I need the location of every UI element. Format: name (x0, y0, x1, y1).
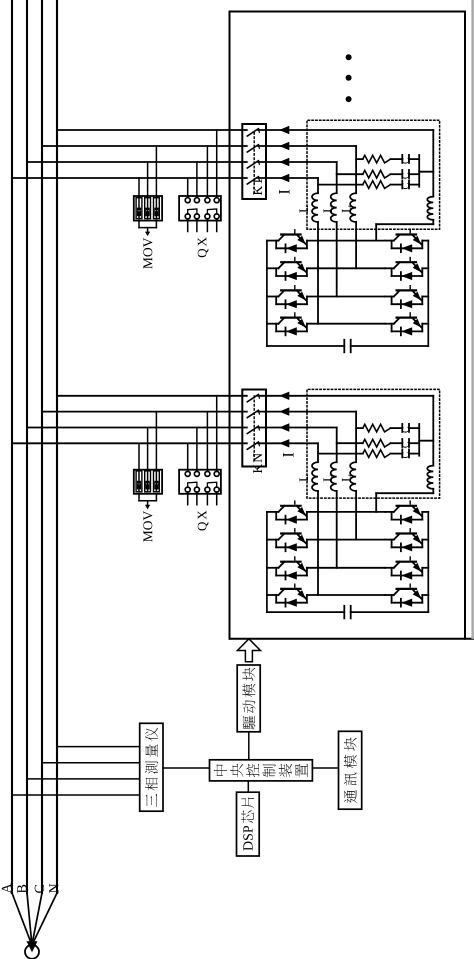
capacitor C phase B (module 1) (391, 170, 420, 178)
label L phase A (module N) (300, 475, 309, 482)
wire varistor A to phase wire (module N) (138, 443, 140, 492)
three-phase source symbol (25, 945, 39, 959)
capacitor C phase C (module N) (391, 424, 420, 432)
contactor K1 linkage dotted line (253, 130, 255, 193)
current direction arrow on phase A (module 1) (279, 174, 289, 182)
inductor L neutral (module 1) (427, 197, 433, 220)
wire QX pole C to phase wire (module N) (206, 412, 208, 472)
resistor R phase C (module N) (356, 424, 390, 432)
capacitor C phase A (module N) (391, 449, 420, 457)
three-phase meter block (140, 723, 163, 811)
wire QX pole B to phase wire (module N) (196, 428, 198, 472)
QX pole C output stub (module N) (206, 492, 208, 505)
varistor A (module 1) (136, 198, 142, 219)
contactor K1 pole B blade (247, 161, 259, 168)
QX pole A output stub (module N) (187, 492, 189, 505)
label L phase B (module 1) (324, 206, 333, 213)
label MOV (module N) (143, 511, 152, 542)
wire leg 3 midpoint (module N) (307, 567, 385, 569)
wire leg 2 midpoint (module 1) (307, 267, 385, 269)
inductor L phase B (module N) (331, 462, 337, 491)
contactor KN pole N blade (247, 395, 259, 402)
resistor R phase B (module N) (337, 439, 391, 447)
QX terminals pole C (module 1) (205, 198, 210, 219)
label C phase A (module 1) (402, 183, 409, 189)
varistor A (module N) (136, 471, 142, 492)
QX terminals pole A (module N) (185, 471, 190, 492)
label I (module N) (283, 453, 294, 457)
IGBT Q6 lower leg 2 (module 1) (385, 258, 428, 281)
IGBT Q2 upper leg 2 (module 1) (267, 258, 307, 281)
QX terminals pole A (module 1) (185, 198, 190, 219)
IGBT Q3 upper leg 3 (module N) (267, 557, 307, 580)
current direction arrow on phase N (module 1) (279, 126, 289, 134)
QX pole B output stub (module N) (196, 492, 198, 505)
wire leg 1 midpoint (module N) (307, 511, 385, 513)
IGBT Q6 lower leg 2 (module N) (385, 529, 428, 552)
wire leg 2 midpoint (module N) (307, 539, 385, 541)
label KN (253, 453, 262, 473)
bus N (56, 0, 58, 893)
IGBT Q4 upper leg 4 (module N) (267, 584, 307, 607)
capacitor C phase B (module N) (391, 439, 420, 447)
LCL filter dashed box (module N) (307, 389, 440, 498)
IGBT Q5 lower leg 1 (module 1) (385, 230, 428, 253)
MOV common bracket and arrow (module 1) (139, 221, 156, 237)
varistor B (module 1) (145, 198, 151, 219)
page edge artifact (471, 0, 473, 638)
wire phase B from bus to module N (27, 427, 337, 429)
label L phase B (module N) (324, 475, 333, 482)
wire RC common to neutral (module 1) (419, 155, 433, 187)
bridge positive rail (module N) (266, 512, 268, 612)
wire varistor B to phase wire (module N) (147, 428, 149, 492)
IGBT Q3 upper leg 3 (module 1) (267, 286, 307, 309)
wire phase A line (module N) (317, 443, 319, 595)
contactor KN pole A blade (247, 442, 259, 449)
QX terminals pole N (module N) (214, 471, 219, 492)
label L phase C (module N) (342, 475, 351, 482)
wire leg 4 midpoint (module 1) (307, 323, 385, 325)
QX pole A output stub (module 1) (187, 219, 189, 232)
resistor R phase A (module 1) (318, 181, 391, 189)
MOV common bracket and arrow (module N) (139, 494, 156, 510)
breaker QX box (module N) (179, 470, 221, 494)
wire QX pole A to phase wire (module N) (187, 443, 189, 471)
wire varistor B to phase wire (module 1) (147, 162, 149, 219)
DC bus capacitor (module 1) (267, 340, 428, 353)
wire phase C line (module 1) (355, 146, 357, 268)
label A (2, 884, 11, 894)
wire varistor A to phase wire (module 1) (138, 178, 140, 219)
wire control to driver (248, 732, 250, 760)
wire neutral path (module N) (376, 396, 433, 512)
current direction arrow on phase B (module 1) (279, 158, 289, 166)
contactor KN pole C blade (247, 410, 259, 417)
IGBT Q4 upper leg 4 (module 1) (267, 313, 307, 336)
DC bus capacitor (module N) (267, 606, 428, 619)
current direction arrow on phase C (module N) (279, 407, 289, 415)
wire QX pole B to phase wire (module 1) (196, 162, 198, 198)
wire phase C from bus to module N (42, 411, 356, 413)
wire phase B from bus to module 1 (27, 161, 337, 163)
current direction arrow on phase N (module N) (279, 392, 289, 400)
IGBT Q7 lower leg 3 (module N) (385, 557, 428, 580)
IGBT Q5 lower leg 1 (module N) (385, 501, 428, 524)
inductor L phase B (module 1) (331, 193, 337, 222)
label N (49, 884, 58, 893)
QX pole C output stub (module 1) (206, 219, 208, 232)
QX linkage bar 2 (module 1) (207, 209, 216, 214)
contactor K1 box (242, 124, 266, 199)
wire neutral path (module 1) (376, 130, 433, 241)
label B (17, 885, 26, 893)
label C phase B (module 1) (402, 173, 409, 179)
label MOV (module 1) (143, 238, 152, 269)
inductor L phase C (module N) (350, 462, 356, 491)
wire varistor C to phase wire (module 1) (155, 146, 157, 219)
LCL filter dashed box (module 1) (307, 120, 440, 229)
ellipsis dots (more modules) (346, 96, 352, 102)
resistor R phase A (module N) (318, 450, 391, 458)
current direction arrow on phase B (module N) (279, 423, 289, 431)
label C (35, 885, 44, 893)
IGBT Q1 upper leg 1 (module 1) (267, 230, 307, 253)
inductor L phase C (module 1) (350, 193, 356, 222)
central control unit block (210, 760, 313, 781)
communication module block (339, 731, 362, 809)
contactor K1 pole A blade (247, 177, 259, 184)
wire DSP to control (247, 781, 249, 792)
wire phase A line (module 1) (317, 178, 319, 324)
contactor KN box (242, 390, 266, 467)
wire meter to control (163, 767, 210, 769)
contactor KN linkage dotted line (253, 396, 255, 461)
driver module block (237, 665, 260, 732)
bus A (11, 0, 13, 893)
label C phase A (module N) (402, 452, 409, 458)
QX pole N output stub (module 1) (216, 219, 218, 232)
wire phase B line (module N) (336, 428, 338, 568)
MOV varistor block box (module N) (134, 470, 162, 494)
current direction arrow on phase C (module 1) (279, 142, 289, 150)
label L phase C (module 1) (342, 206, 351, 213)
label C phase C (module N) (402, 427, 409, 433)
varistor C (module N) (154, 471, 160, 492)
wire phase A from bus to module 1 (12, 177, 318, 179)
bus B (26, 0, 28, 893)
wire leg 3 midpoint (module 1) (307, 296, 385, 298)
contactor K1 pole N blade (247, 129, 259, 136)
bridge negative rail (module N) (427, 512, 429, 612)
wire control to comm module (312, 767, 338, 769)
resistor R phase B (module 1) (337, 170, 391, 178)
wire phase C from bus to module 1 (42, 145, 356, 147)
label I (module 1) (279, 190, 290, 194)
driver output hollow arrow (237, 639, 260, 662)
wire QX pole C to phase wire (module 1) (206, 146, 208, 198)
meter taps to buses (12, 794, 140, 796)
label K1 (253, 179, 262, 195)
QX pole N output stub (module N) (216, 492, 218, 505)
QX terminals pole N (module 1) (214, 198, 219, 219)
QX linkage bar 2 (module N) (207, 482, 216, 487)
wire leg 4 midpoint (module N) (307, 594, 385, 596)
wire phase N from bus to module 1 (57, 129, 433, 131)
QX pole B output stub (module 1) (196, 219, 198, 232)
bridge positive rail (module 1) (266, 241, 268, 346)
varistor B (module N) (145, 471, 151, 492)
wire phase A from bus to module N (12, 442, 318, 444)
IGBT Q7 lower leg 3 (module 1) (385, 286, 428, 309)
QX terminals pole B (module N) (194, 471, 199, 492)
wire phase B line (module 1) (336, 162, 338, 297)
wire phase C line (module N) (355, 412, 357, 540)
IGBT Q2 upper leg 2 (module N) (267, 529, 307, 552)
current direction arrow on phase A (module N) (279, 439, 289, 447)
IGBT Q1 upper leg 1 (module N) (267, 501, 307, 524)
source convergence wires (12, 893, 31, 944)
contactor K1 pole C blade (247, 145, 259, 152)
capacitor C phase C (module 1) (391, 155, 420, 163)
wire phase N from bus to module N (57, 395, 433, 397)
wire QX pole N to phase wire (module 1) (216, 130, 218, 198)
QX terminals pole C (module N) (205, 471, 210, 492)
wire leg 1 midpoint (module 1) (307, 240, 385, 242)
bridge negative rail (module 1) (427, 241, 429, 346)
inductor L phase A (module 1) (312, 193, 318, 222)
wire QX pole A to phase wire (module 1) (187, 178, 189, 198)
wire RC common to neutral (module N) (419, 424, 433, 456)
QX linkage bar 1 (module N) (188, 482, 197, 487)
IGBT Q8 lower leg 4 (module 1) (385, 313, 428, 336)
label QX (module N) (198, 511, 209, 531)
varistor C (module 1) (154, 198, 160, 219)
wire varistor C to phase wire (module N) (155, 412, 157, 492)
capacitor C phase A (module 1) (391, 180, 420, 188)
QX terminals pole B (module 1) (194, 198, 199, 219)
bus C (41, 0, 43, 893)
contactor KN pole B blade (247, 426, 259, 433)
label L phase A (module 1) (300, 206, 309, 213)
resistor R phase C (module 1) (356, 155, 390, 163)
QX linkage bar 1 (module 1) (188, 209, 197, 214)
label C phase C (module 1) (402, 158, 409, 164)
inductor L phase A (module N) (312, 462, 318, 491)
MOV varistor block box (module 1) (134, 196, 162, 221)
inductor L neutral (module N) (427, 466, 433, 489)
DSP chip block (237, 792, 260, 856)
wire QX pole N to phase wire (module N) (216, 396, 218, 472)
IGBT Q8 lower leg 4 (module N) (385, 584, 428, 607)
main cabinet rectangle (229, 12, 231, 639)
label C phase B (module N) (402, 442, 409, 448)
breaker QX box (module 1) (179, 196, 221, 221)
label QX (module 1) (198, 237, 209, 257)
